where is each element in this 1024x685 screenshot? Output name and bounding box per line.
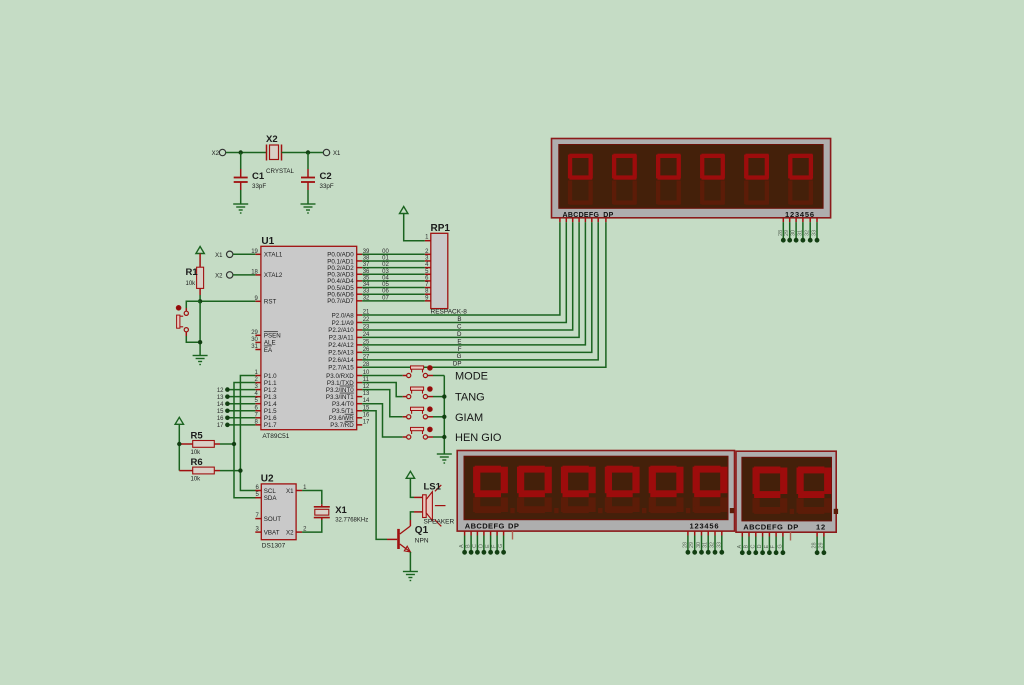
power arrow above RP1 pin1	[400, 207, 408, 214]
svg-text:15: 15	[217, 409, 224, 415]
svg-text:DP: DP	[787, 522, 798, 531]
svg-text:PSEN: PSEN	[264, 333, 281, 340]
node terminal	[815, 550, 820, 555]
svg-text:E: E	[764, 545, 770, 549]
pin RST (9)	[255, 300, 261, 302]
resistor pack RP1 RESPACK-8	[431, 233, 448, 308]
pin right display digit 1	[816, 532, 818, 536]
node digit 4 terminal	[801, 238, 806, 243]
digit 5 top display	[746, 154, 769, 158]
node A terminal	[462, 550, 467, 555]
svg-text:28: 28	[682, 542, 688, 548]
power arrow above LS1	[406, 471, 414, 478]
wire P1.0 to SCL	[240, 376, 256, 491]
node G terminal	[501, 550, 506, 555]
display DS top 6-digit 7SEG	[552, 139, 831, 219]
wire R5 to SDA line	[220, 443, 234, 445]
pin bottom display digit 6	[721, 531, 723, 535]
node digit 3 terminal	[794, 238, 799, 243]
svg-text:B: B	[457, 316, 461, 323]
svg-text:P2.2/A10: P2.2/A10	[328, 327, 354, 334]
digit 2 right display	[797, 498, 804, 513]
svg-text:33pF: 33pF	[252, 183, 266, 190]
crystal X1 32.7768KHz	[314, 504, 368, 523]
pin P1.3 (4)	[255, 396, 261, 398]
pin top display DP	[605, 218, 607, 222]
node R6/SCL junction	[238, 468, 242, 472]
svg-text:31: 31	[703, 542, 709, 548]
svg-text:U1: U1	[261, 236, 274, 247]
node terminal	[774, 550, 779, 555]
pin top display digit 1	[782, 218, 784, 222]
wire RP1 pin1 to power	[404, 214, 425, 241]
pin RP1.1	[425, 240, 431, 242]
wire P0.0 to RP1 net 00	[362, 253, 425, 255]
pin right display DP (nc)	[790, 532, 792, 540]
svg-text:32.7768KHz: 32.7768KHz	[335, 518, 368, 524]
wire P2.6 net G to display	[362, 222, 598, 360]
digit 1 right display	[753, 498, 760, 513]
wire R6 to SCL line	[220, 470, 240, 472]
pin bottom display digit 3	[701, 531, 703, 535]
power arrow left column	[175, 417, 183, 424]
svg-text:P1.3: P1.3	[264, 394, 277, 401]
op chip U1 AT89C51	[261, 246, 357, 429]
svg-text:29: 29	[818, 542, 824, 548]
wire speaker bottom to Q1 collector	[410, 512, 414, 520]
svg-text:DS1307: DS1307	[262, 543, 286, 550]
pin RP1.5	[425, 273, 431, 275]
digit 4 bottom display	[605, 497, 612, 512]
svg-text:P1.4: P1.4	[264, 401, 277, 408]
pin right display B	[748, 532, 750, 536]
pin top display D	[578, 218, 580, 222]
svg-text:28: 28	[812, 542, 818, 548]
svg-text:14: 14	[217, 402, 224, 408]
node net 15 end	[225, 408, 230, 413]
svg-text:28: 28	[778, 230, 784, 236]
pin P0.2/AD2 (37)	[357, 267, 363, 269]
svg-text:RST: RST	[264, 299, 277, 306]
svg-text:DP: DP	[453, 361, 462, 368]
pin bottom display C	[476, 531, 478, 535]
wire P1.3 net 13	[227, 396, 255, 398]
svg-text:ABCDEFG: ABCDEFG	[563, 212, 600, 219]
digit 3 bottom display	[561, 497, 568, 512]
svg-text:29: 29	[689, 542, 695, 548]
wire P1.7 net 17	[227, 424, 255, 426]
pin P2.1/A9 (22)	[357, 321, 363, 323]
pin bottom display digit 4	[707, 531, 709, 535]
node digit terminal	[686, 550, 691, 555]
pin bottom display B	[470, 531, 472, 535]
node digit 5 terminal	[808, 238, 813, 243]
pin U2 SOUT (7)	[255, 518, 261, 520]
svg-text:00: 00	[382, 249, 389, 255]
svg-text:ABCDEFG: ABCDEFG	[743, 522, 783, 531]
pin right display A	[741, 532, 743, 536]
pin P0.0/AD0 (39)	[357, 253, 363, 255]
pin ALE (30)	[255, 341, 261, 343]
pin top display B	[565, 218, 567, 222]
svg-text:X2: X2	[215, 273, 223, 279]
svg-text:R5: R5	[191, 431, 204, 442]
wire RST vertical to ground	[199, 301, 201, 355]
svg-text:X2: X2	[212, 151, 220, 157]
svg-text:C: C	[750, 545, 756, 549]
svg-text:06: 06	[382, 289, 389, 295]
pin right display D	[762, 532, 764, 536]
pin RP1.2	[425, 253, 431, 255]
svg-text:B: B	[466, 544, 472, 548]
pin U2 SDA (5)	[255, 497, 261, 499]
reset push button (vertical)	[176, 301, 200, 342]
pin bottom display G	[503, 531, 505, 535]
wire	[226, 152, 267, 154]
button MODE	[403, 366, 433, 378]
ground button bus	[437, 454, 452, 463]
pin right display digit 2	[823, 532, 825, 536]
pin PSEN (29)	[255, 334, 261, 336]
pin top display digit 6	[816, 218, 818, 222]
node F terminal	[495, 550, 500, 555]
pin U2 SCL (6)	[255, 490, 261, 492]
svg-text:01: 01	[382, 255, 389, 261]
node HEN GIO junction	[442, 435, 446, 439]
capacitor C2	[301, 153, 334, 205]
svg-text:30: 30	[251, 337, 258, 343]
pin P3.6/WR (16)	[357, 417, 363, 419]
wire P1.6 net 16	[227, 417, 255, 419]
node terminal	[822, 550, 827, 555]
wire P2.2 net C to display	[362, 222, 573, 330]
svg-text:12: 12	[217, 388, 224, 394]
pin P1.5 (6)	[255, 410, 261, 412]
svg-text:HEN GIO: HEN GIO	[455, 432, 502, 444]
svg-text:P3.0/RXD: P3.0/RXD	[326, 373, 354, 380]
svg-text:10k: 10k	[191, 476, 202, 482]
pin P2.7/A15 (28)	[357, 366, 363, 368]
pin bottom display A	[464, 531, 466, 535]
node GIAM junction	[442, 415, 446, 419]
svg-text:VBAT: VBAT	[264, 529, 280, 536]
pin RP1.3	[425, 260, 431, 262]
wire crystal to U2.X2	[302, 520, 322, 532]
svg-text:02: 02	[382, 262, 389, 268]
pin bottom display digit 2	[694, 531, 696, 535]
node terminal	[740, 550, 745, 555]
pin P3.7/RD (17)	[357, 424, 363, 426]
svg-text:EA: EA	[264, 347, 273, 354]
pin right display C	[755, 532, 757, 536]
ground Q1	[403, 572, 418, 581]
wire P1.5 net 15	[227, 410, 255, 412]
node terminal	[760, 550, 765, 555]
digit 2 bottom display	[517, 497, 524, 512]
node C terminal	[475, 550, 480, 555]
svg-text:XTAL1: XTAL1	[264, 252, 283, 259]
svg-text:33: 33	[716, 542, 722, 548]
terminal X1 to XTAL1	[227, 251, 233, 257]
node TANG junction	[442, 394, 446, 398]
pin RP1.4	[425, 267, 431, 269]
pin right display G	[782, 532, 784, 536]
button TANG	[403, 387, 433, 399]
svg-text:P1.0: P1.0	[264, 373, 277, 380]
pin top display digit 5	[809, 218, 811, 222]
svg-text:P1.7: P1.7	[264, 422, 277, 429]
pin RP1.7	[425, 287, 431, 289]
button HEN GIO	[403, 427, 433, 439]
svg-text:29: 29	[251, 330, 258, 336]
wire P3.4 to HEN GIO button	[362, 404, 403, 437]
svg-text:G: G	[498, 544, 504, 548]
pin RP1.8	[425, 293, 431, 295]
svg-text:SOUT: SOUT	[264, 516, 281, 523]
pin XTAL1 (19)	[255, 253, 261, 255]
pin top display G	[597, 218, 599, 222]
node digit 1 terminal	[781, 238, 786, 243]
pin P3.1/TXD (11)	[357, 382, 363, 384]
pin P0.7/AD7 (32)	[357, 300, 363, 302]
node terminal	[753, 550, 758, 555]
svg-text:C2: C2	[320, 171, 332, 182]
node E terminal	[488, 550, 493, 555]
svg-text:17: 17	[363, 419, 370, 425]
svg-text:G: G	[457, 353, 462, 360]
svg-text:32: 32	[710, 542, 716, 548]
wire P2.0 net A to display	[362, 222, 560, 315]
node B terminal	[469, 550, 474, 555]
pin bottom display E	[490, 531, 492, 535]
svg-text:SCL: SCL	[264, 488, 277, 495]
svg-text:G: G	[777, 544, 783, 548]
pin P1.0 (1)	[255, 375, 261, 377]
svg-text:03: 03	[382, 269, 389, 275]
svg-text:16: 16	[363, 412, 370, 418]
wire P0.2 to RP1 net 02	[362, 267, 425, 269]
digit 6 top display	[790, 154, 813, 158]
wire P1.1 to SDA	[234, 383, 256, 498]
wire P2.3 net D to display	[362, 222, 579, 337]
node digit terminal	[699, 550, 704, 555]
svg-text:A: A	[459, 544, 465, 548]
node D terminal	[482, 550, 487, 555]
pin P1.4 (5)	[255, 403, 261, 405]
node R5/SDA junction	[232, 442, 236, 446]
svg-text:31: 31	[251, 344, 258, 350]
wire P2.4 net E to display	[362, 222, 585, 345]
svg-text:10k: 10k	[191, 450, 202, 456]
svg-text:GIAM: GIAM	[455, 412, 483, 424]
pin top display C	[572, 218, 574, 222]
wire P0.3 to RP1 net 03	[362, 273, 425, 275]
svg-text:CRYSTAL: CRYSTAL	[266, 168, 295, 175]
wire button bus to ground	[433, 375, 444, 377]
digit 3 top display	[657, 154, 680, 158]
node terminal	[781, 550, 786, 555]
node terminal	[767, 550, 772, 555]
pin right display E	[768, 532, 770, 536]
svg-text:E: E	[485, 544, 491, 548]
svg-text:P0.7/AD7: P0.7/AD7	[327, 298, 354, 305]
svg-text:17: 17	[217, 423, 224, 429]
svg-text:P3.4/T0: P3.4/T0	[332, 401, 354, 408]
ground under C1	[233, 204, 248, 213]
node digit terminal	[692, 550, 697, 555]
svg-text:XTAL2: XTAL2	[264, 272, 283, 279]
wire P0.5 to RP1 net 05	[362, 287, 425, 289]
capacitor C1	[234, 153, 267, 205]
svg-text:30: 30	[696, 542, 702, 548]
svg-text:D: D	[457, 331, 462, 338]
svg-text:P2.6/A14: P2.6/A14	[328, 357, 354, 364]
svg-text:X1: X1	[335, 505, 347, 516]
button GIAM	[403, 407, 433, 419]
svg-text:123456: 123456	[785, 210, 815, 219]
node net 14 end	[225, 401, 230, 406]
pin P0.5/AD5 (34)	[357, 287, 363, 289]
pin top display E	[584, 218, 586, 222]
pin P2.6/A14 (27)	[357, 359, 363, 361]
wire P2.1 net B to display	[362, 222, 566, 322]
node net 13 end	[225, 394, 230, 399]
wire power to speaker top	[410, 478, 414, 497]
wire P0.6 to RP1 net 06	[362, 293, 425, 295]
node junction C2 top	[306, 150, 310, 154]
wire P3.1 to TANG button	[362, 383, 403, 397]
svg-text:RP1: RP1	[431, 223, 451, 234]
transistor Q1 NPN	[387, 520, 429, 552]
pin P1.1 (2)	[255, 382, 261, 384]
pin right display F	[775, 532, 777, 536]
digit 6 bottom display	[693, 497, 700, 512]
wire P3.2 to GIAM button	[362, 390, 403, 417]
digit 4 top display	[701, 154, 724, 158]
svg-text:X2: X2	[266, 134, 278, 145]
pin top display digit 4	[802, 218, 804, 222]
svg-text:P2.5/A13: P2.5/A13	[328, 350, 354, 357]
svg-text:12: 12	[816, 522, 826, 531]
svg-text:E: E	[457, 338, 461, 345]
resistor R5 10k	[179, 431, 220, 456]
svg-text:16: 16	[217, 416, 224, 422]
node R5 left junction	[177, 442, 181, 446]
svg-text:AT89C51: AT89C51	[262, 433, 289, 440]
pin P1.2 (3)	[255, 389, 261, 391]
node junction C1 top	[239, 150, 243, 154]
svg-text:C: C	[457, 323, 462, 330]
wire P2.7 net DP to display	[362, 222, 606, 367]
node terminal	[747, 550, 752, 555]
node digit terminal	[713, 550, 718, 555]
pin P2.0/A8 (21)	[357, 314, 363, 316]
svg-text:X1: X1	[215, 253, 223, 259]
svg-text:P1.6: P1.6	[264, 415, 277, 422]
pin top display digit 2	[789, 218, 791, 222]
pin top display digit 3	[795, 218, 797, 222]
svg-text:LS1: LS1	[424, 482, 442, 493]
svg-text:31: 31	[797, 230, 803, 236]
wire P3.0 to MODE button	[362, 375, 403, 377]
svg-text:MODE: MODE	[455, 371, 488, 383]
wire P0.7 to RP1 net 07	[362, 300, 425, 302]
svg-text:P1.1: P1.1	[264, 380, 277, 387]
svg-text:P2.1/A9: P2.1/A9	[332, 320, 355, 327]
pin U2 X1 (1)	[296, 490, 302, 492]
ground under C2	[301, 204, 316, 213]
svg-text:P3.7/RD: P3.7/RD	[330, 422, 354, 429]
svg-text:X1: X1	[333, 151, 341, 157]
svg-text:P1.2: P1.2	[264, 387, 277, 394]
wire Q1 emitter to ground	[409, 552, 411, 572]
svg-text:29: 29	[784, 230, 790, 236]
node net 16 end	[225, 416, 230, 421]
pin P2.4/A12 (25)	[357, 344, 363, 346]
svg-text:U2: U2	[261, 474, 274, 485]
svg-text:R1: R1	[186, 267, 199, 278]
svg-text:C1: C1	[252, 171, 265, 182]
svg-text:DP: DP	[508, 522, 519, 531]
crystal X2	[266, 134, 295, 175]
pin bottom display DP (nc)	[512, 531, 514, 539]
display bottom 6-digit 7SEG	[457, 451, 734, 532]
svg-text:DP: DP	[603, 212, 613, 219]
pin P3.2/INT0 (12)	[357, 389, 363, 391]
speaker LS1	[414, 482, 455, 527]
pin bottom display digit 5	[714, 531, 716, 535]
terminal X1 (right)	[323, 149, 329, 155]
terminal X2 to XTAL2	[227, 272, 233, 278]
digit 2 top display	[613, 154, 636, 158]
pin U2 X2 (2)	[296, 531, 302, 533]
pin RP1.6	[425, 280, 431, 282]
node net 12 end	[225, 387, 230, 392]
wire U2.X1 to crystal	[302, 491, 322, 505]
svg-text:D: D	[757, 545, 763, 549]
pin P1.6 (7)	[255, 417, 261, 419]
pin XTAL2 (18)	[255, 274, 261, 276]
svg-text:ABCDEFG: ABCDEFG	[465, 522, 505, 531]
svg-text:04: 04	[382, 275, 389, 281]
pin P3.4/T0 (14)	[357, 403, 363, 405]
node digit terminal	[719, 550, 724, 555]
wire P0.4 to RP1 net 04	[362, 280, 425, 282]
pin EA (31)	[255, 349, 261, 351]
svg-text:Q1: Q1	[415, 525, 429, 536]
svg-text:13: 13	[363, 391, 370, 397]
terminal X2 (left)	[219, 149, 225, 155]
svg-text:F: F	[458, 346, 462, 353]
pin P0.3/AD3 (36)	[357, 273, 363, 275]
pin U2 VBAT (3)	[255, 531, 261, 533]
pin RP1.9	[425, 300, 431, 302]
wire R1 to RST	[199, 295, 201, 301]
ground reset	[193, 356, 208, 365]
resistor R1 10k	[186, 254, 204, 296]
pin bottom display digit 1	[687, 531, 689, 535]
wire P2.5 net F to display	[362, 222, 592, 352]
power arrow above R1	[196, 247, 204, 254]
svg-text:32: 32	[805, 230, 811, 236]
pin P0.4/AD4 (35)	[357, 280, 363, 282]
svg-text:R6: R6	[191, 457, 203, 468]
svg-text:33pF: 33pF	[320, 183, 334, 190]
pin P0.1/AD1 (38)	[357, 260, 363, 262]
pin P2.3/A11 (24)	[357, 336, 363, 338]
svg-text:SDA: SDA	[264, 495, 278, 502]
node digit 2 terminal	[787, 238, 792, 243]
